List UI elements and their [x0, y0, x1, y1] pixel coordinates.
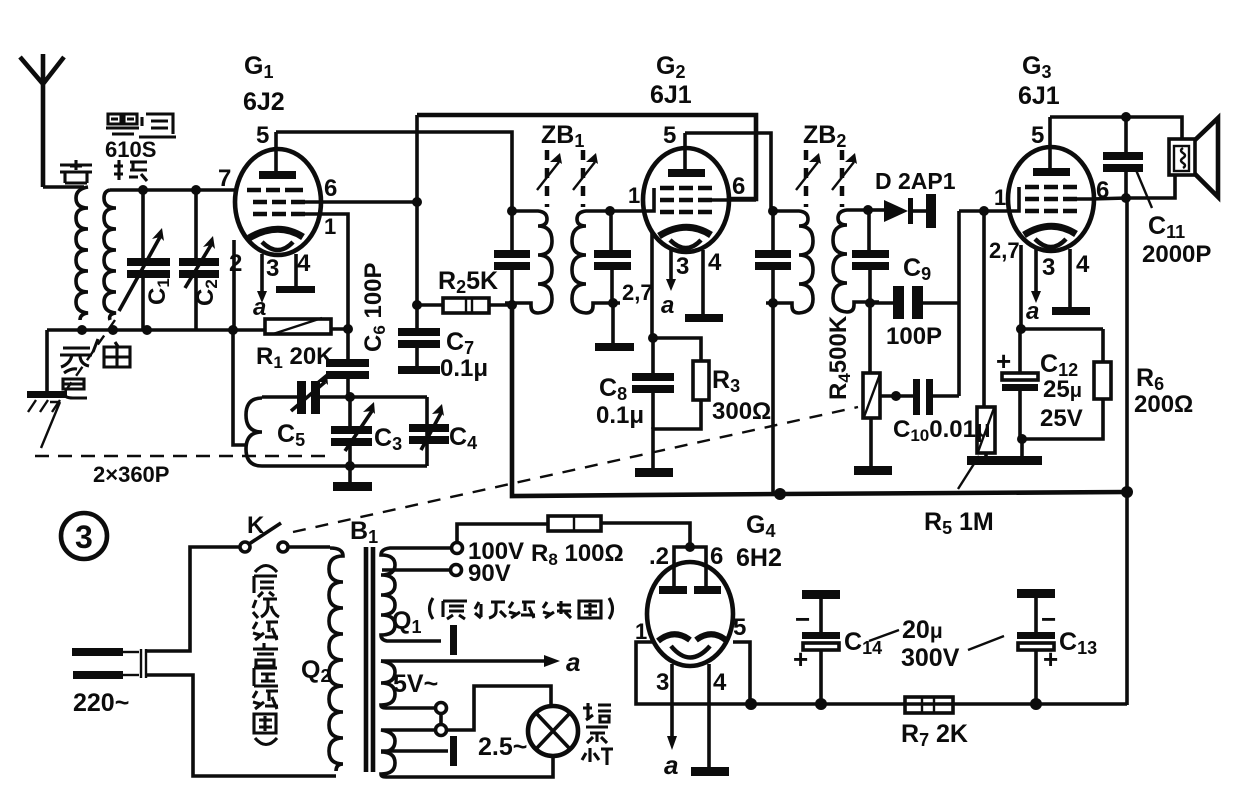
label 20u 300V with pointers	[869, 630, 1004, 650]
svg-text:6: 6	[732, 173, 745, 200]
ZB2 secondary coil	[833, 210, 879, 312]
HV note char quan	[579, 601, 601, 618]
wire ZB2 primary bottom to bus	[771, 303, 775, 495]
label green char	[114, 160, 147, 181]
svg-text:R7 2K: R7 2K	[901, 720, 968, 750]
svg-text:610S: 610S	[105, 137, 156, 162]
indicator lamp	[528, 706, 578, 756]
svg-text:K: K	[247, 512, 265, 539]
wire G3 plate top line	[1050, 117, 1182, 139]
resistor R6	[1022, 329, 1111, 439]
node R2 C7 junction	[412, 300, 422, 310]
ground under C8 R3	[635, 468, 673, 477]
ZB1 secondary coil	[572, 211, 620, 313]
capacitor C6	[326, 329, 369, 397]
G3 cathode chassis bar	[1052, 307, 1090, 315]
G1 plate bar	[259, 171, 296, 179]
ZB2 secondary cap	[852, 205, 889, 308]
wire 100V to R8	[457, 524, 548, 543]
svg-text:1: 1	[324, 214, 336, 239]
wire detector line	[959, 209, 1009, 213]
HV note char chu	[475, 602, 506, 618]
svg-text:0.1μ: 0.1μ	[596, 402, 644, 429]
svg-text:6H2: 6H2	[736, 544, 782, 572]
svg-text:a: a	[1026, 298, 1039, 325]
svg-text:300V: 300V	[901, 644, 960, 672]
G2 pin4 lead	[701, 250, 705, 314]
G2 grid row2	[660, 198, 712, 203]
B1 HV winding Q1	[381, 548, 452, 641]
ZB1 secondary ground	[611, 303, 615, 343]
HV note char yuan	[443, 601, 467, 619]
node C11 bottom	[1121, 193, 1131, 203]
IF transformer ZB2 primary cap	[755, 206, 791, 308]
svg-text:220~: 220~	[73, 689, 129, 717]
B1 note char ji2	[253, 691, 278, 709]
G3 cathode arc	[1024, 226, 1076, 235]
svg-text:7: 7	[218, 165, 231, 192]
ground under R4	[854, 466, 892, 475]
tube G4 6H2 envelope	[647, 562, 733, 666]
label coil brand char2	[139, 114, 176, 137]
svg-text:200Ω: 200Ω	[1134, 391, 1193, 418]
svg-text:+: +	[793, 644, 808, 674]
Q1 chassis bar	[450, 625, 457, 655]
G3 heater arc	[1035, 239, 1066, 247]
svg-text:R8 100Ω: R8 100Ω	[531, 540, 624, 569]
svg-text:6: 6	[1096, 177, 1109, 204]
resistor R5	[977, 211, 995, 456]
svg-text:R4500K: R4500K	[825, 315, 854, 400]
label colorless char1	[60, 348, 92, 367]
mains cord bottom	[73, 671, 123, 679]
lamp note char deng	[582, 748, 613, 765]
oscillator coil L2	[246, 398, 262, 466]
G1 cathode arc	[249, 229, 303, 238]
wire screen bus y115	[417, 115, 756, 199]
svg-text:6: 6	[710, 543, 723, 570]
wire G3 grid entry	[1009, 187, 1019, 211]
svg-text:3: 3	[75, 519, 93, 555]
bottom rail	[750, 702, 1127, 706]
node C1 top	[138, 185, 148, 195]
G2 heater arc	[670, 240, 701, 248]
terminal 100V	[452, 543, 463, 554]
svg-text:100P: 100P	[886, 323, 942, 350]
G4 plate bars	[659, 586, 687, 594]
wire G1 plate line y132	[276, 132, 512, 211]
transformer B1 core	[366, 547, 373, 772]
transformer T1 secondary coil	[104, 190, 116, 320]
B1 5V winding	[381, 661, 436, 708]
B1 note char quan	[254, 714, 276, 733]
antenna	[20, 54, 64, 187]
svg-text:6J2: 6J2	[243, 88, 285, 116]
resistor R3	[653, 338, 709, 468]
G1 grid row1	[247, 188, 303, 193]
terminal 5V	[436, 703, 447, 714]
G3 grid row2	[1025, 197, 1077, 202]
B1 note char gao	[253, 643, 278, 666]
wire detector riser	[957, 211, 961, 396]
capacitor C12 electrolytic	[996, 329, 1038, 439]
svg-text:+: +	[996, 346, 1011, 376]
capacitor C13 electrolytic	[1017, 589, 1058, 704]
label R5 1M with pointer	[958, 456, 979, 489]
ZB1 slug adjust marks	[537, 150, 598, 207]
B1 vertical note paren top	[255, 566, 277, 573]
HV note char xian	[543, 601, 571, 618]
resistor R8	[548, 516, 690, 547]
svg-text:a: a	[661, 292, 674, 319]
tube G2 6J1 envelope	[643, 148, 729, 252]
ground earth symbol	[27, 391, 67, 412]
capacitor C2	[179, 190, 221, 330]
node rail G4	[745, 698, 757, 710]
capacitor C1	[119, 190, 173, 330]
wire antenna to coil T1	[43, 185, 84, 189]
diode D 2AP1	[868, 194, 936, 228]
capacitor C9	[870, 286, 959, 319]
B1 note char yuan	[254, 576, 277, 597]
svg-text:D 2AP1: D 2AP1	[875, 168, 956, 194]
svg-text:R5 1M: R5 1M	[924, 508, 994, 538]
svg-text:4: 4	[1076, 251, 1090, 278]
svg-text:R1 20K: R1 20K	[256, 343, 334, 372]
G3 pin2 7 lead	[1019, 245, 1023, 329]
transformer B1 primary coil Q2	[329, 548, 343, 771]
svg-text:0.1μ: 0.1μ	[440, 355, 488, 382]
wire plate line to speaker	[1127, 174, 1175, 198]
cathode network wire	[1021, 327, 1103, 331]
svg-text:5: 5	[256, 122, 269, 149]
G2 grid row1	[660, 186, 712, 191]
HV winding note paren left	[430, 598, 434, 619]
G2 pin2 7 lead	[650, 231, 654, 338]
wire bottom bus y330	[47, 328, 265, 332]
wire G1 pin2 down to oscillator tap	[233, 330, 247, 445]
variable capacitor C3	[331, 392, 375, 471]
G3 plate bar	[1033, 168, 1070, 176]
G3 grid row3	[1025, 209, 1077, 214]
speaker	[1169, 118, 1218, 197]
svg-text:5: 5	[733, 614, 746, 641]
tick mark	[93, 339, 98, 352]
wire lamp feed	[446, 686, 551, 730]
oscillator box bottom edge	[262, 464, 427, 468]
wire ZB1 secondary to G2 grid	[610, 188, 654, 211]
svg-text:20μ: 20μ	[902, 616, 943, 644]
node R5 grid junction	[979, 206, 989, 216]
wire screen riser x417	[415, 115, 419, 305]
G1 pin5 lead	[274, 132, 278, 171]
label colorless char2	[63, 369, 87, 398]
G1 pin1 lead	[305, 214, 348, 329]
ZB1 secondary cap	[594, 206, 631, 308]
label white char	[104, 342, 130, 367]
dashed gang link K to R4	[293, 407, 858, 532]
capacitor C14 electrolytic	[793, 590, 840, 704]
wire left drop to ground	[45, 330, 49, 391]
2.5V mid tap	[381, 749, 448, 753]
svg-text:3: 3	[656, 669, 669, 696]
wire mains to B1 bottom	[147, 675, 336, 776]
node C1 bottom	[142, 325, 152, 335]
svg-text:3: 3	[266, 255, 279, 282]
svg-text:4: 4	[297, 250, 311, 277]
oscillator box right edge	[425, 397, 429, 466]
svg-text:a: a	[253, 294, 266, 321]
mains cord top	[72, 648, 123, 656]
G2 pin6 lead	[712, 198, 756, 202]
G1 cathode chassis bar	[276, 286, 315, 293]
G1 grid row3	[253, 212, 305, 217]
ground under R5	[967, 456, 1005, 465]
svg-text:25V: 25V	[1040, 405, 1083, 432]
resistor R7	[905, 697, 953, 713]
capacitor C7	[398, 305, 440, 374]
node ZB2 on bus	[774, 488, 786, 500]
HV note char ji	[509, 602, 535, 618]
resistor R2	[417, 298, 512, 313]
G4 heater arc	[671, 646, 710, 658]
mains plug pins	[141, 649, 146, 678]
node coil bottom	[77, 325, 87, 335]
circled 3	[61, 513, 107, 559]
capacitor C10	[880, 379, 959, 415]
right spine to bottom rail	[1125, 198, 1129, 705]
transformer T1 primary coil	[76, 187, 88, 320]
svg-text:2×360P: 2×360P	[93, 462, 169, 487]
svg-text:300Ω: 300Ω	[712, 398, 771, 425]
svg-text:+: +	[1043, 644, 1058, 674]
G2 cathode arc	[659, 227, 711, 236]
G2 grid row3	[660, 210, 712, 215]
G3 pin3 lead with arrow	[1034, 249, 1038, 292]
B1 note char ya	[254, 668, 278, 686]
svg-text:3: 3	[676, 253, 689, 280]
svg-text:6J1: 6J1	[1018, 82, 1060, 110]
wire lamp bottom	[545, 756, 553, 777]
svg-text:2,7: 2,7	[989, 238, 1020, 263]
tube G1 6J2 envelope	[235, 149, 321, 255]
svg-text:a: a	[664, 750, 678, 780]
svg-text:4: 4	[713, 669, 727, 696]
wire grid line y190 to G1 pin7	[110, 188, 236, 192]
trimmer C4	[409, 404, 449, 450]
node rail C14	[815, 698, 827, 710]
svg-text:.2: .2	[649, 543, 669, 570]
svg-text:−: −	[795, 604, 810, 634]
wire K to mains	[147, 547, 240, 651]
G1 pin4 lead	[294, 254, 298, 286]
svg-text:a: a	[566, 647, 580, 677]
IF transformer ZB1 primary cap	[494, 206, 530, 310]
B1 90V tap	[382, 568, 450, 572]
terminal 90V	[451, 565, 462, 576]
svg-text:−: −	[1041, 604, 1056, 634]
ZB2 slug adjust marks	[796, 150, 857, 207]
capacitor C8	[632, 333, 674, 429]
G1 pin3 lead with arrow	[260, 254, 264, 293]
G1 heater arc	[262, 242, 293, 250]
svg-text:5: 5	[1031, 122, 1044, 149]
ZB1 primary coil	[505, 211, 552, 313]
G3 grid row1	[1025, 185, 1077, 190]
G4 frame box	[636, 642, 750, 704]
label coil brand char1	[106, 114, 139, 134]
G2 plate bar	[668, 169, 705, 177]
wire K to B1 primary	[288, 545, 330, 549]
G2 plate line to ZB2	[685, 133, 771, 211]
HV winding note paren right	[609, 598, 613, 619]
node C2 top	[191, 185, 201, 195]
dashed gang link zigzag	[41, 402, 60, 448]
label yellow char	[60, 160, 92, 183]
B1 note char ci	[253, 599, 279, 618]
node rail C13	[1030, 698, 1042, 710]
svg-text:90V: 90V	[468, 560, 511, 587]
ground under C12	[1020, 439, 1024, 456]
svg-text:2000P: 2000P	[1142, 241, 1211, 268]
G4 pin3 lead with arrow	[670, 664, 674, 737]
svg-text:5V~: 5V~	[393, 670, 438, 698]
svg-text:R25K: R25K	[438, 267, 498, 297]
node C12 ground junction	[1017, 434, 1027, 444]
svg-text:6: 6	[324, 175, 337, 202]
node bus right end	[1121, 486, 1133, 498]
lamp note char zhi	[583, 703, 611, 722]
svg-text:3: 3	[1042, 254, 1055, 281]
ground under C3	[348, 466, 352, 482]
G4 plate bracket	[674, 547, 706, 586]
dashed gang link upper	[62, 320, 115, 396]
2.5V chassis bar	[450, 736, 457, 766]
G4 heater ground bar	[691, 767, 729, 776]
svg-text:2,7: 2,7	[622, 280, 653, 305]
G1 pin2 lead	[232, 240, 236, 330]
B1 note char ji	[253, 622, 278, 640]
svg-text:5: 5	[663, 122, 676, 149]
G2 pin5 lead	[683, 133, 687, 169]
svg-text:4: 4	[708, 249, 722, 276]
G1 pin6 lead to screen line	[305, 200, 417, 204]
B1 2.5V winding	[381, 730, 545, 777]
G2 pin3 lead with arrow	[669, 250, 673, 280]
terminal 2.5V	[436, 725, 447, 736]
oscillator box top edge with C5	[262, 395, 427, 399]
B1 vertical note paren bottom	[255, 738, 277, 745]
G1 grid row2	[253, 200, 305, 205]
node C11 top	[1121, 112, 1131, 122]
filament tap wire with arrow	[381, 659, 545, 663]
switch K	[240, 523, 288, 552]
potentiometer R4	[863, 303, 880, 466]
trimmer C5	[291, 373, 328, 414]
terminal link	[439, 713, 443, 725]
capacitor C11	[1103, 117, 1143, 198]
tube G3 6J1 envelope	[1008, 147, 1094, 251]
dashed gang link horizontal	[35, 455, 333, 457]
ZB2 primary coil	[766, 211, 813, 313]
G4 cathode arcs	[658, 634, 690, 641]
node G1 screen junction	[412, 197, 422, 207]
G4 pin4 lead	[707, 664, 711, 767]
svg-text:6J1: 6J1	[650, 81, 692, 109]
label C11 with pointer	[1136, 170, 1152, 208]
G2 cathode chassis bar	[685, 314, 723, 322]
svg-text:25μ: 25μ	[1043, 376, 1082, 403]
lamp note char shi	[586, 727, 608, 743]
svg-text:2.5~: 2.5~	[478, 733, 527, 761]
svg-text:2: 2	[229, 250, 242, 277]
B plus bus	[512, 305, 1127, 496]
G3 pin4 lead	[1068, 249, 1072, 307]
svg-text:C6 100P: C6 100P	[360, 262, 389, 352]
resistor R1	[228, 318, 353, 335]
G3 pin5 lead	[1048, 117, 1052, 168]
G3 pin6 lead	[1077, 198, 1127, 199]
node sec coil bottom	[108, 325, 118, 335]
svg-text:1: 1	[994, 185, 1006, 210]
svg-text:1: 1	[628, 183, 640, 208]
